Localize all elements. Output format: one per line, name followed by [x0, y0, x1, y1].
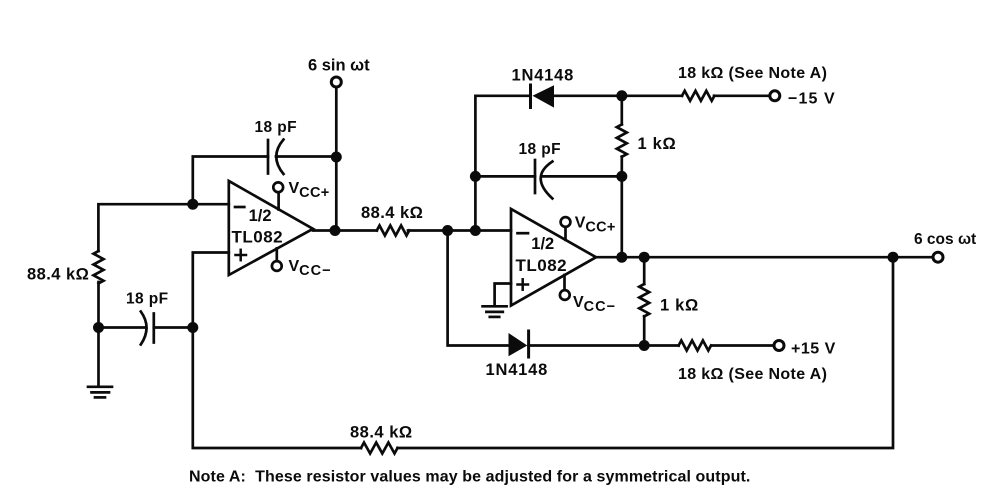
node: output junction with 6sin line	[330, 225, 341, 236]
wire: C1 left lead and down to inverting node	[193, 157, 268, 205]
svg-text:VCC+: VCC+	[289, 180, 330, 201]
svg-text:18 pF: 18 pF	[255, 119, 297, 136]
wire: D1 to 18k node	[554, 94, 622, 97]
pin VCC+ U2	[561, 217, 571, 227]
wire: R5 bottom to diode node	[643, 316, 646, 345]
wire: D2 to bottom 18k node	[529, 344, 645, 347]
svg-text:6 cos ωt: 6 cos ωt	[914, 231, 976, 248]
label minus U1	[235, 206, 244, 209]
svg-text:VCC−: VCC−	[573, 294, 616, 315]
node: inverting input junction	[187, 199, 198, 210]
wire: diode branch down and across	[448, 231, 509, 346]
node: C1/6sin junction	[331, 152, 342, 163]
wire: 6sin terminal down to opamp1 output node	[335, 88, 338, 231]
pin VCC+ U1	[273, 182, 283, 192]
ground symbol U2	[483, 306, 507, 317]
label plus U2	[518, 279, 529, 289]
capacitor C2 18pF to ground	[141, 312, 154, 345]
op-amp U2 TL082	[511, 209, 596, 306]
ground symbol left	[88, 387, 112, 398]
node: output/feedback junction	[888, 252, 899, 263]
svg-text:18 pF: 18 pF	[519, 141, 561, 158]
svg-text:+15 V: +15 V	[791, 341, 836, 358]
svg-text:18 kΩ (See Note A): 18 kΩ (See Note A)	[678, 366, 827, 383]
wire: C2 right lead	[154, 326, 193, 329]
svg-text:VCC+: VCC+	[575, 215, 616, 236]
svg-text:1N4148: 1N4148	[512, 67, 575, 85]
node: cap/diode top branch junction	[470, 225, 481, 236]
wire: opamp1 inverting input	[98, 204, 228, 251]
wire: to R7	[644, 344, 678, 347]
wire: R1 bottom to ground node	[97, 282, 100, 328]
svg-text:−15 V: −15 V	[788, 91, 836, 108]
wire: to R6	[622, 94, 682, 97]
wire: C3 left lead	[475, 175, 535, 178]
svg-text:18 pF: 18 pF	[126, 291, 168, 308]
terminal +15 V	[774, 341, 784, 351]
svg-text:VCC−: VCC−	[289, 258, 332, 279]
svg-text:1N4148: 1N4148	[486, 361, 549, 379]
pin VCC- U2	[560, 290, 570, 300]
capacitor C3 18pF feedback opamp2	[535, 160, 552, 199]
node: output/R4 junction	[616, 252, 627, 263]
svg-text:18 kΩ (See Note A): 18 kΩ (See Note A)	[678, 65, 827, 82]
node: cap right junction	[616, 171, 627, 182]
op-amp U1 TL082	[229, 181, 313, 275]
resistor R6 18 kOhm	[682, 91, 714, 101]
terminal 6 sin wt	[331, 77, 341, 87]
resistor R4 1 kOhm vertical top	[617, 124, 627, 156]
node: top 18k junction	[616, 90, 627, 101]
diode D2 1N4148 (pointing right)	[509, 331, 529, 357]
svg-text:88.4 kΩ: 88.4 kΩ	[27, 266, 89, 284]
resistor R7 18 kOhm bottom	[679, 341, 711, 351]
wire: top branch up	[475, 96, 529, 231]
capacitor C1 18pF feedback opamp1	[268, 140, 284, 175]
wire: opamp1 output to opamp2 inverting input	[313, 229, 377, 232]
wire: feedback bottom loop	[193, 328, 361, 449]
wire: C1 right lead	[276, 155, 336, 158]
svg-text:88.4 kΩ: 88.4 kΩ	[350, 424, 413, 442]
label minus U2	[518, 232, 529, 235]
resistor R5 1 kOhm vertical bottom	[639, 284, 649, 316]
wire: output node to R5 top	[643, 257, 646, 284]
wire: opamp2 output to 6cos terminal	[596, 256, 933, 259]
svg-text:TL082: TL082	[232, 228, 284, 247]
node: ground junction	[93, 322, 104, 333]
terminal 6 cos wt	[933, 252, 943, 262]
svg-text:1/2: 1/2	[249, 207, 272, 225]
node: C2 / noninverting junction	[187, 322, 198, 333]
svg-text:88.4 kΩ: 88.4 kΩ	[361, 204, 423, 222]
node: 18pF branch on vertical	[470, 171, 481, 182]
terminal -15 V	[770, 91, 780, 101]
svg-text:TL082: TL082	[516, 256, 568, 275]
svg-text:1 kΩ: 1 kΩ	[660, 297, 699, 315]
wire: C3 right lead	[543, 175, 622, 178]
node: diode branch junction	[442, 225, 453, 236]
svg-text:1/2: 1/2	[531, 235, 554, 253]
pin VCC- U1	[272, 261, 282, 271]
node: bottom 18k junction	[639, 340, 650, 351]
resistor R1 88.4 kOhm vertical	[94, 251, 104, 283]
node: output/R5 junction	[639, 252, 650, 263]
svg-text:Note A: These resistor values: Note A: These resistor values may be adj…	[189, 469, 750, 486]
wire: 18k node down through R4 to cap node and output	[620, 96, 623, 125]
wire: up to opamp1 noninverting input	[193, 253, 229, 328]
diode D1 1N4148 (pointing left)	[531, 85, 555, 108]
wire: R6 to -15V terminal	[714, 94, 770, 97]
wire: U2 noninverting to ground	[495, 284, 511, 306]
resistor R3 88.4 kOhm bottom	[361, 443, 398, 454]
svg-text:1 kΩ: 1 kΩ	[638, 135, 677, 153]
resistor R2 88.4 kOhm horizontal	[377, 226, 409, 236]
svg-text:6 sin ωt: 6 sin ωt	[308, 57, 370, 75]
label plus U1	[236, 250, 247, 260]
wire: ground node down	[97, 328, 100, 386]
wire: C2 left lead	[99, 326, 147, 329]
wire: R7 to +15V terminal	[712, 344, 774, 347]
